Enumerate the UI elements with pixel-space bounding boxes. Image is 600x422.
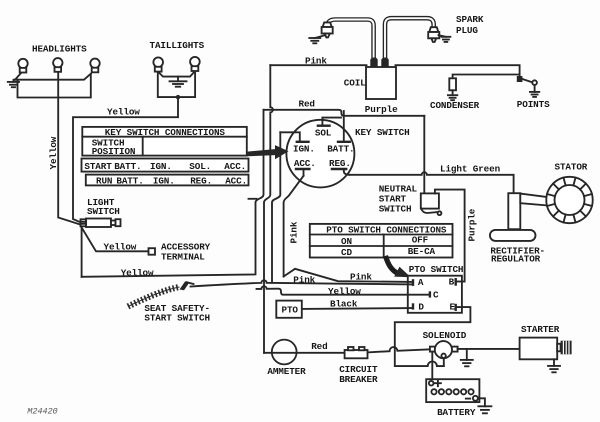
seat safety start switch label bbox=[144, 303, 210, 324]
terminal ACC bbox=[294, 158, 316, 176]
svg-text:KEY SWITCH CONNECTIONS: KEY SWITCH CONNECTIONS bbox=[105, 127, 226, 138]
points symbol bbox=[517, 76, 537, 85]
svg-text:SPARK: SPARK bbox=[456, 14, 484, 25]
svg-text:BATT.: BATT. bbox=[114, 161, 141, 172]
wire solenoid left nub to battery positive bbox=[431, 352, 433, 379]
wire to accessory terminal bbox=[81, 227, 149, 252]
svg-text:Light Green: Light Green bbox=[440, 163, 501, 174]
wire NSS output to PTO switch B bbox=[435, 190, 465, 282]
spark plug right bbox=[428, 27, 439, 42]
svg-text:POINTS: POINTS bbox=[517, 99, 550, 110]
seat safety switch lever bbox=[180, 282, 194, 291]
svg-text:TERMINAL: TERMINAL bbox=[161, 251, 205, 262]
svg-text:ACC.: ACC. bbox=[294, 158, 316, 169]
terminal E bbox=[450, 302, 456, 313]
lamp L1 bbox=[18, 59, 27, 73]
svg-text:REG.: REG. bbox=[329, 158, 351, 169]
wire ign vertical with jog bbox=[272, 132, 280, 282]
ground spark plug right bbox=[439, 35, 451, 42]
lamp L3 bbox=[90, 59, 99, 73]
svg-text:POSITION: POSITION bbox=[92, 146, 136, 157]
spark plug label bbox=[456, 14, 484, 36]
pto switch box bbox=[408, 276, 462, 313]
svg-text:ON: ON bbox=[341, 236, 352, 247]
wire taillight feed down-left to light switch bbox=[73, 97, 178, 222]
starter M2 bbox=[520, 338, 572, 360]
wire red vertical (BATT feed) with jog bbox=[82, 110, 264, 277]
terminal A bbox=[413, 277, 424, 288]
rectifier-regulator stem bbox=[508, 193, 520, 229]
svg-text:SWITCH: SWITCH bbox=[379, 203, 412, 214]
wire pink line coil left bbox=[270, 64, 366, 66]
ground condenser bbox=[448, 90, 457, 100]
lamp T1 bbox=[153, 57, 163, 71]
wire pink vertical from pink line with hop over red bbox=[264, 65, 273, 353]
svg-text:Pink: Pink bbox=[289, 221, 300, 243]
coil C1 bbox=[366, 58, 396, 100]
svg-text:PTO SWITCH: PTO SWITCH bbox=[409, 264, 464, 275]
svg-text:RUN: RUN bbox=[96, 175, 112, 186]
svg-text:PTO: PTO bbox=[282, 305, 299, 316]
svg-text:STATOR: STATOR bbox=[555, 161, 588, 172]
PTO box bbox=[276, 301, 302, 318]
svg-text:E: E bbox=[450, 302, 456, 313]
svg-text:Red: Red bbox=[299, 98, 315, 109]
svg-text:CD: CD bbox=[341, 247, 352, 258]
svg-text:REGULATOR: REGULATOR bbox=[491, 254, 541, 265]
wire red line to BATT with step down to purple run bbox=[264, 110, 425, 116]
ground battery bbox=[478, 398, 492, 413]
arrow from table to key switch bbox=[247, 145, 288, 159]
key switch connections table bbox=[82, 127, 249, 187]
ground headlights bbox=[8, 80, 19, 88]
svg-text:B: B bbox=[449, 277, 455, 288]
wire solenoid bottom stub bbox=[443, 359, 445, 367]
svg-text:SOLENOID: SOLENOID bbox=[423, 330, 467, 341]
svg-text:M24420: M24420 bbox=[27, 407, 57, 417]
svg-text:ACC.: ACC. bbox=[225, 175, 247, 186]
curved arrow from pto table to pto switch bbox=[386, 256, 411, 277]
pto switch connections table bbox=[310, 224, 453, 258]
key switch circle U1 bbox=[286, 120, 354, 188]
svg-text:COIL: COIL bbox=[344, 78, 366, 89]
stator ring bbox=[546, 177, 592, 223]
wire black bus PTO to terminal D bbox=[302, 307, 412, 310]
rectifier-regulator base bbox=[490, 230, 536, 241]
svg-text:SOL.: SOL. bbox=[189, 161, 211, 172]
ammeter M1 bbox=[272, 340, 297, 365]
svg-text:BATT.: BATT. bbox=[116, 175, 143, 186]
seat safety cable (striped band) bbox=[128, 287, 180, 307]
svg-text:Yellow: Yellow bbox=[104, 242, 137, 253]
wire acc diagonal with jog bbox=[284, 176, 304, 277]
lamp L2 bbox=[53, 58, 62, 72]
svg-text:IGN.: IGN. bbox=[153, 175, 175, 186]
svg-text:Pink: Pink bbox=[350, 271, 372, 282]
svg-text:Pink: Pink bbox=[293, 274, 315, 285]
wire headlight feed to light switch bbox=[58, 73, 80, 225]
svg-text:REG.: REG. bbox=[190, 175, 212, 186]
wire headlight lamp1 lead bbox=[15, 73, 22, 80]
terminal D bbox=[413, 301, 424, 312]
svg-text:START: START bbox=[84, 161, 112, 172]
svg-text:STARTER: STARTER bbox=[521, 324, 560, 335]
neutral start switch S2 bbox=[421, 193, 442, 215]
spark plug wire right (double line) bbox=[385, 18, 434, 58]
spark plug left bbox=[322, 22, 333, 37]
accessory terminal bbox=[149, 248, 156, 255]
ground solenoid bbox=[461, 349, 473, 366]
svg-text:Purple: Purple bbox=[365, 104, 398, 115]
solenoid L1 bbox=[430, 341, 458, 358]
battery B1 bbox=[426, 379, 479, 402]
wire pink riser to terminal A (upper) bbox=[284, 269, 413, 282]
junction dot taillight bbox=[176, 95, 180, 99]
svg-text:D: D bbox=[418, 301, 424, 312]
svg-text:HEADLIGHTS: HEADLIGHTS bbox=[32, 44, 87, 55]
wire light green with hop over purple bbox=[350, 172, 514, 193]
wire seat safety to pto switch A (lower) with hop bbox=[191, 280, 413, 286]
wire pink line coil right to points bbox=[396, 65, 520, 76]
neutral start switch label bbox=[379, 184, 418, 215]
svg-text:Yellow: Yellow bbox=[48, 136, 59, 169]
svg-text:ACC.: ACC. bbox=[224, 161, 246, 172]
ground starter bbox=[548, 359, 560, 372]
wire purple vertical to neutral start switch bbox=[423, 116, 425, 194]
lamp T2 bbox=[190, 57, 200, 71]
condenser bbox=[449, 78, 456, 90]
svg-text:KEY SWITCH: KEY SWITCH bbox=[355, 127, 410, 138]
wire headlight bus lower bbox=[18, 75, 91, 98]
terminal REG bbox=[329, 158, 351, 175]
light switch label bbox=[87, 197, 120, 217]
svg-text:AMMETER: AMMETER bbox=[267, 366, 306, 377]
svg-text:BATTERY: BATTERY bbox=[437, 407, 476, 418]
wire yellow bus to terminal C with hop bbox=[257, 286, 430, 294]
svg-text:Red: Red bbox=[311, 341, 327, 352]
svg-text:Yellow: Yellow bbox=[121, 267, 154, 278]
stator spokes bbox=[547, 178, 592, 223]
circuit breaker label bbox=[339, 364, 378, 385]
svg-text:A: A bbox=[418, 277, 424, 288]
svg-text:Yellow: Yellow bbox=[107, 107, 140, 118]
svg-text:BREAKER: BREAKER bbox=[339, 374, 378, 385]
wire terminal E loop to solenoid bottom terminal bbox=[395, 307, 471, 366]
terminal BATT bbox=[327, 111, 354, 154]
rectifier-regulator arm bbox=[520, 194, 548, 206]
svg-text:START SWITCH: START SWITCH bbox=[144, 313, 210, 324]
terminal SOL bbox=[315, 118, 341, 139]
svg-text:CONDENSER: CONDENSER bbox=[430, 100, 480, 111]
wire breaker to solenoid with hop bbox=[368, 347, 430, 352]
svg-text:BE-CA: BE-CA bbox=[408, 246, 436, 257]
svg-text:TAILLIGHTS: TAILLIGHTS bbox=[150, 40, 205, 51]
terminal IGN bbox=[280, 132, 315, 154]
wire ammeter run bbox=[264, 352, 345, 354]
terminal C bbox=[430, 289, 439, 300]
svg-text:Yellow: Yellow bbox=[328, 286, 361, 297]
svg-text:C: C bbox=[433, 289, 439, 300]
ground points bbox=[530, 85, 539, 97]
wire headlight bus upper bbox=[15, 74, 91, 80]
wire solenoid to starter with ground tap bbox=[458, 348, 520, 350]
svg-text:OFF: OFF bbox=[412, 235, 429, 246]
svg-text:Purple: Purple bbox=[467, 208, 478, 241]
svg-text:PLUG: PLUG bbox=[456, 25, 478, 36]
light switch S1 bbox=[81, 219, 121, 228]
wire taillight inner bar with leads bbox=[160, 73, 194, 77]
rectifier-regulator label bbox=[490, 246, 545, 265]
circuit breaker CB1 bbox=[345, 347, 368, 358]
ground spark plug left bbox=[309, 36, 324, 44]
wire yellow riser from light switch bbox=[81, 227, 83, 277]
svg-text:Black: Black bbox=[330, 299, 358, 310]
wire stub from table right edge bbox=[249, 198, 257, 200]
svg-text:SWITCH: SWITCH bbox=[87, 206, 120, 217]
spark plug wire left (double line) bbox=[328, 20, 374, 59]
svg-text:IGN.: IGN. bbox=[293, 143, 315, 154]
ground taillights bbox=[170, 77, 187, 87]
wire taillight outer loop bbox=[158, 73, 195, 97]
svg-text:BATT.: BATT. bbox=[327, 143, 354, 154]
terminal B bbox=[449, 277, 465, 288]
svg-text:PTO SWITCH CONNECTIONS: PTO SWITCH CONNECTIONS bbox=[326, 225, 447, 236]
svg-text:SOL: SOL bbox=[315, 127, 332, 138]
wire condenser branch bbox=[453, 75, 520, 79]
svg-text:IGN.: IGN. bbox=[150, 161, 172, 172]
accessory terminal label bbox=[161, 242, 211, 263]
